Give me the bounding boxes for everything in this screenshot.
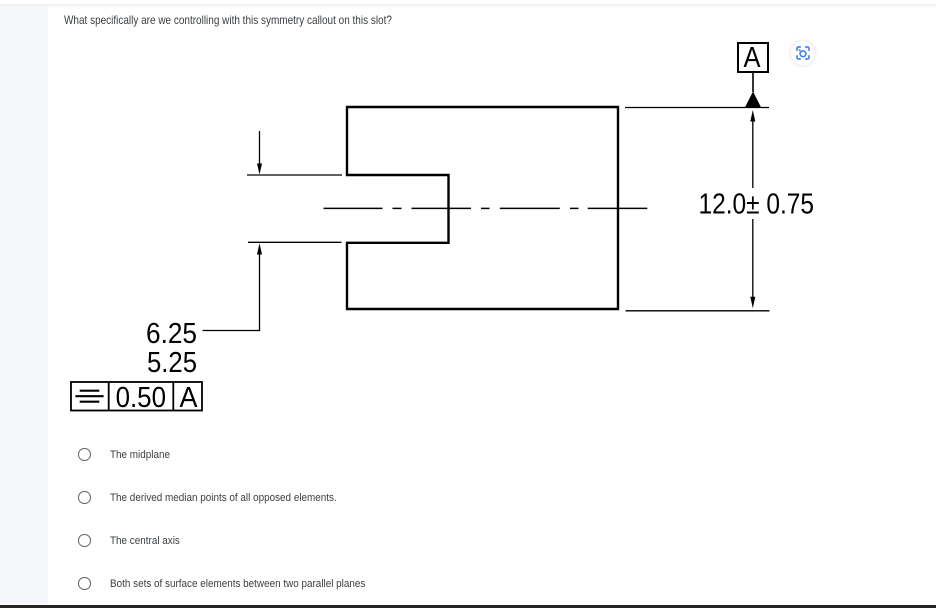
svg-text:12.0± 0.75: 12.0± 0.75 [699,189,815,221]
slot top extension line [247,174,342,176]
svg-text:A: A [744,42,762,74]
slot bottom extension line [248,241,342,243]
bottom divider bar [0,605,936,608]
feature control frame [71,382,202,411]
down arrow to slot top [259,131,261,165]
svg-text:5.25: 5.25 [147,347,197,379]
symmetry symbol [75,391,103,402]
radio option 2 [78,491,91,504]
part outline with slot [347,107,618,309]
centerline [324,207,648,209]
up arrow to slot bottom with leader to 6.25 [203,254,260,331]
svg-text:0.50: 0.50 [116,382,166,414]
radio option 1 [78,448,91,461]
screenshot tool icon [791,41,815,65]
top hairline shadow [0,4,936,6]
radio option 4 [78,577,91,590]
datum A box [738,43,768,72]
svg-text:A: A [180,382,199,414]
right bottom extension line [626,310,770,312]
left sidebar strip [0,4,48,604]
svg-text:6.25: 6.25 [146,318,197,350]
datum stem [752,72,754,92]
datum filled triangle [745,92,761,108]
right top extension line [625,107,769,109]
question text [64,12,392,28]
vertical dimension line 12.0 with arrows [752,121,754,188]
radio option 3 [78,534,91,547]
